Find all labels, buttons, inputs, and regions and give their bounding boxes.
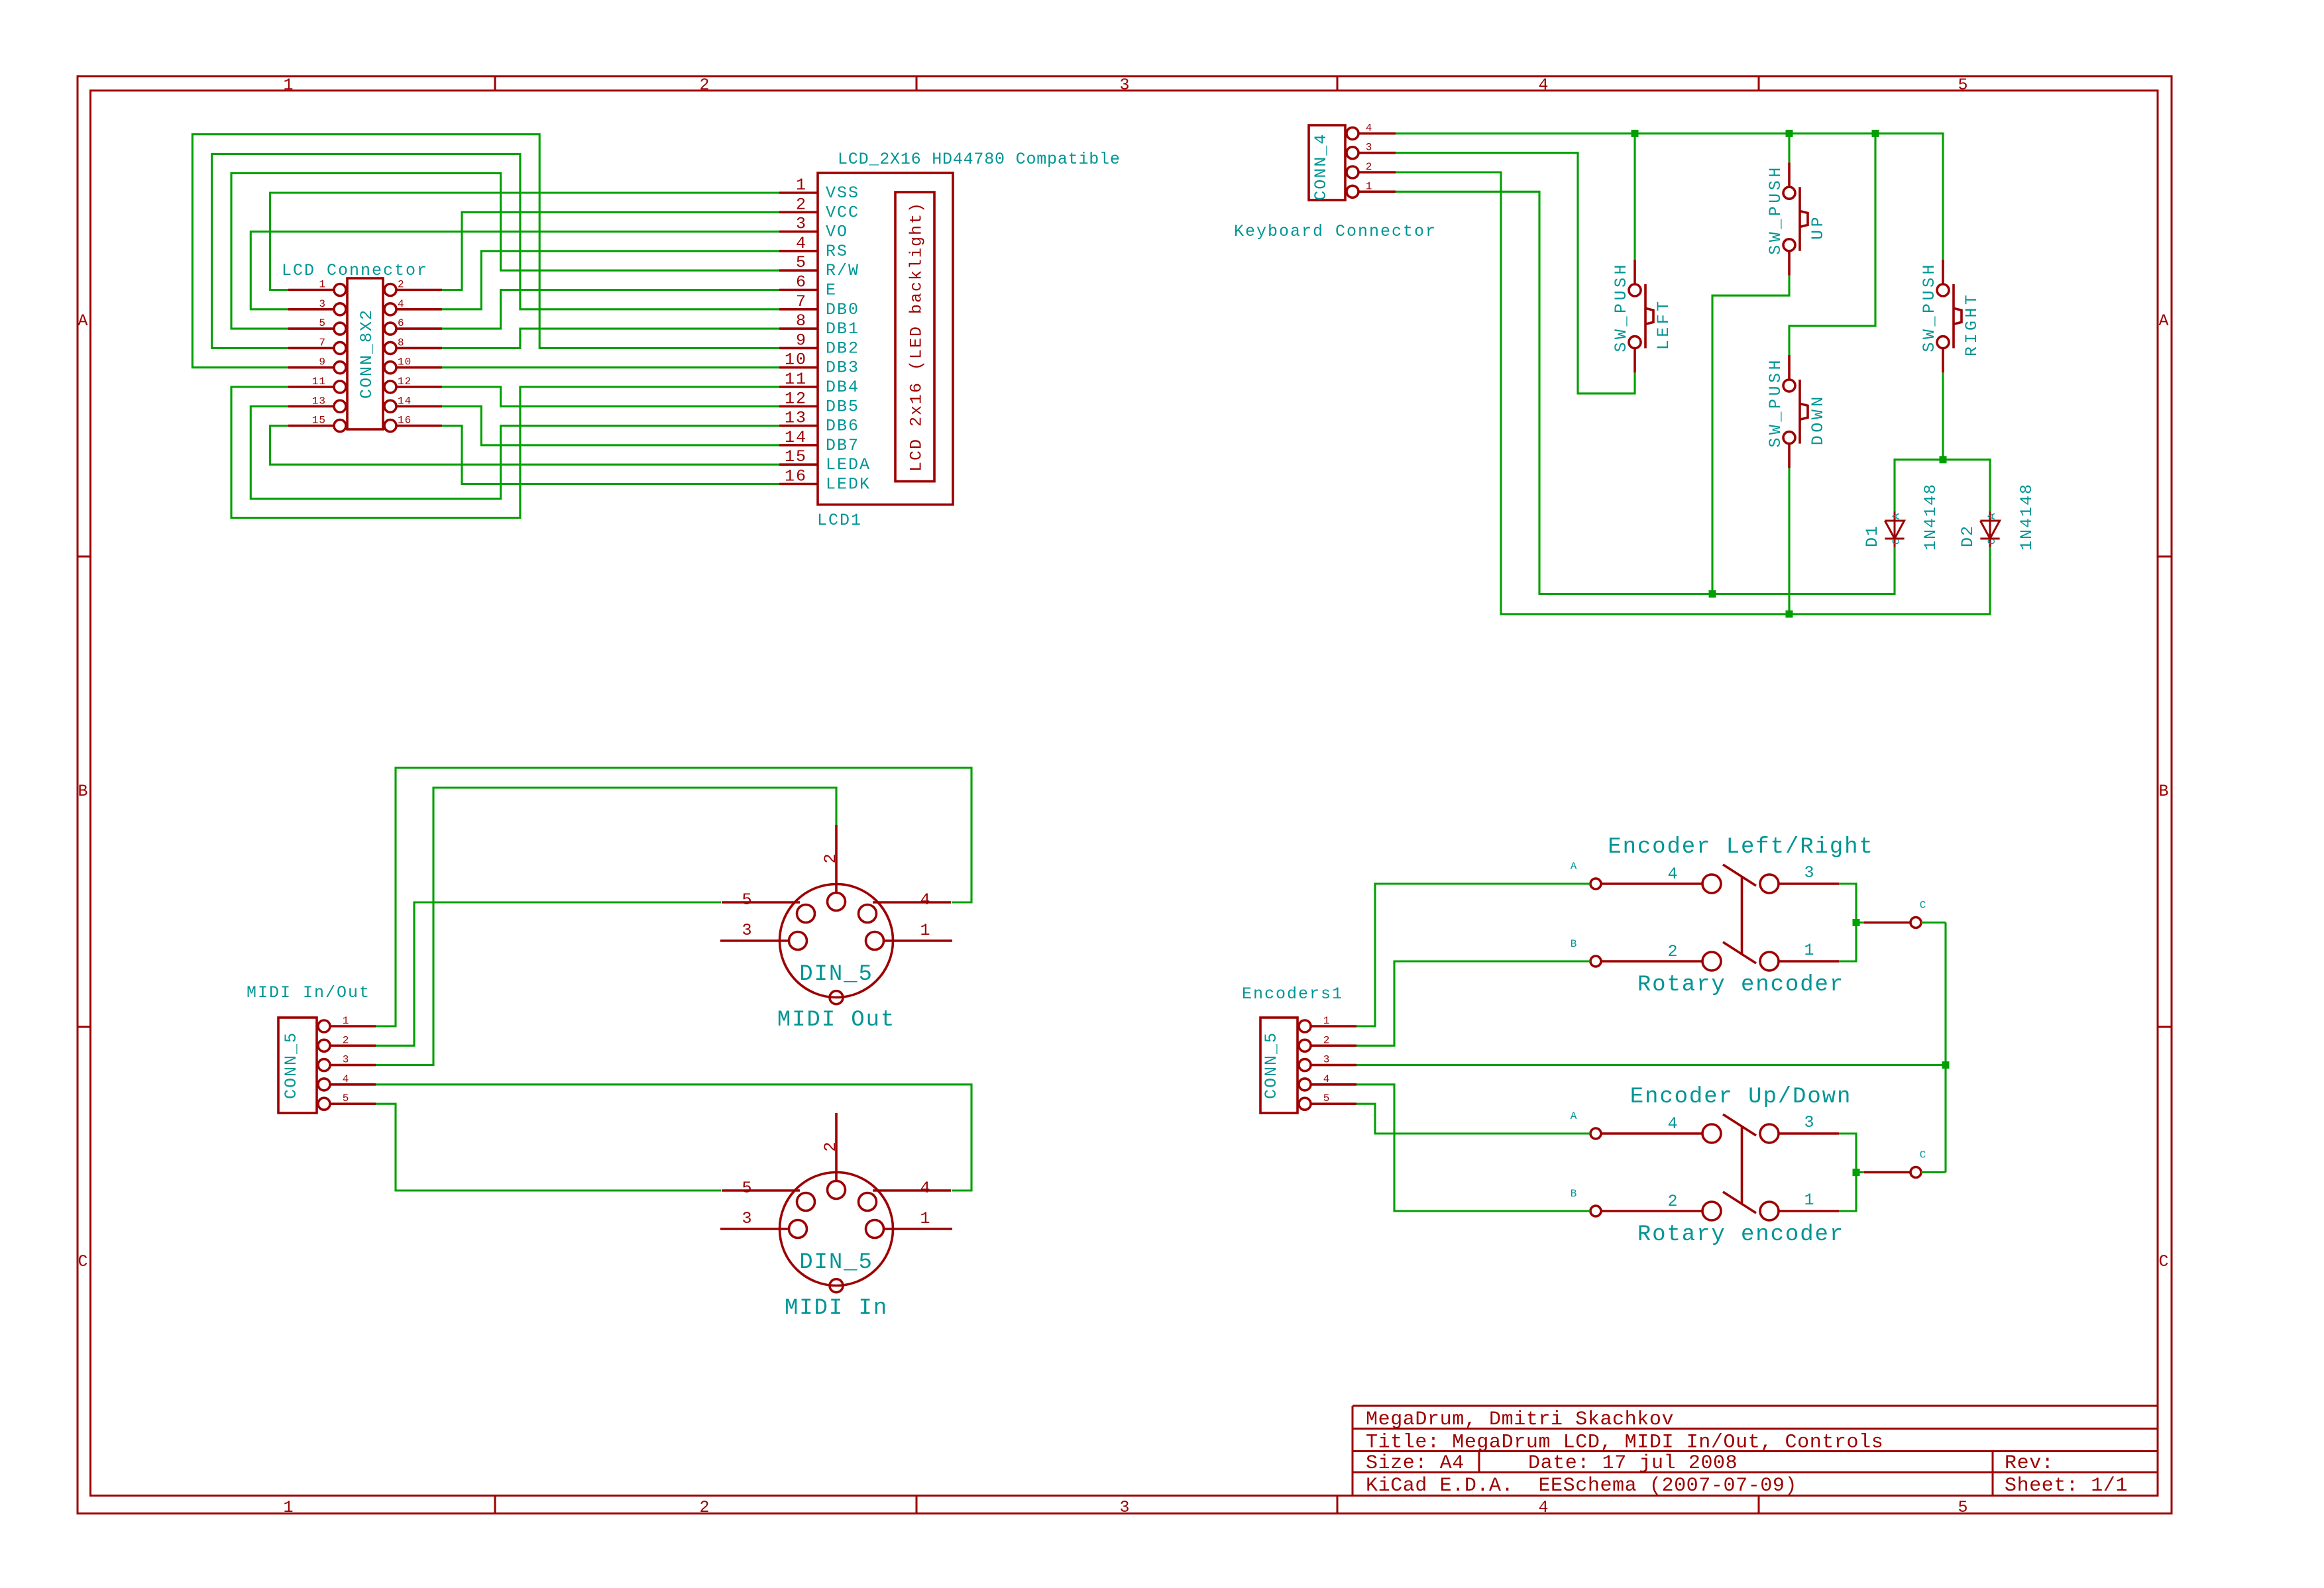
svg-text:11: 11 bbox=[785, 370, 807, 389]
svg-text:DOWN: DOWN bbox=[1808, 394, 1828, 445]
wire Encoders1.1 to Encoder L/R A bbox=[1356, 884, 1590, 1026]
svg-text:3: 3 bbox=[1323, 1054, 1331, 1066]
svg-text:DB4: DB4 bbox=[826, 378, 859, 397]
svg-text:12: 12 bbox=[785, 389, 807, 408]
svg-text:Rotary encoder: Rotary encoder bbox=[1637, 973, 1844, 998]
svg-text:MegaDrum, Dmitri Skachkov: MegaDrum, Dmitri Skachkov bbox=[1366, 1408, 1674, 1431]
svg-text:8: 8 bbox=[796, 311, 807, 331]
svg-text:Title: MegaDrum LCD, MIDI In/O: Title: MegaDrum LCD, MIDI In/Out, Contro… bbox=[1366, 1432, 1883, 1454]
svg-text:DB7: DB7 bbox=[826, 436, 859, 455]
svg-text:1: 1 bbox=[920, 1209, 931, 1228]
wire CONN_8X2.5 to LCD1.5 bbox=[231, 174, 779, 329]
svg-text:4: 4 bbox=[1538, 76, 1549, 95]
encoder (Encoder Up/Down) terminal labels A B C bbox=[1571, 1110, 1927, 1200]
junction UP bottom on net1 bbox=[1709, 590, 1716, 598]
DIN_5 connector (MIDI Out) bbox=[720, 825, 952, 1004]
svg-text:1: 1 bbox=[343, 1015, 350, 1027]
svg-text:DB5: DB5 bbox=[826, 397, 859, 416]
wire Encoders1.5 to Encoder U/D A bbox=[1356, 1104, 1590, 1134]
encoder (Encoder Left/Right) pin numbers bbox=[1667, 863, 1815, 961]
svg-text:C: C bbox=[1920, 1149, 1927, 1161]
svg-text:Rotary encoder: Rotary encoder bbox=[1637, 1222, 1844, 1247]
svg-text:3: 3 bbox=[1366, 142, 1373, 154]
svg-text:D2: D2 bbox=[1958, 525, 1977, 547]
svg-text:B: B bbox=[1571, 1188, 1578, 1200]
svg-text:3: 3 bbox=[343, 1054, 350, 1066]
junction at LEFT top branch bbox=[1632, 130, 1639, 137]
wire CONN_8X2.9 to LCD1.9 bbox=[192, 134, 779, 368]
svg-text:8: 8 bbox=[398, 337, 405, 348]
svg-text:SW_PUSH: SW_PUSH bbox=[1612, 262, 1631, 352]
svg-text:4: 4 bbox=[796, 234, 807, 253]
svg-text:C: C bbox=[1920, 900, 1927, 912]
svg-text:9: 9 bbox=[796, 331, 807, 350]
svg-text:CONN_4: CONN_4 bbox=[1311, 133, 1331, 201]
wire CONN_8X2.8 to LCD1.8 bbox=[442, 329, 779, 348]
svg-text:1: 1 bbox=[283, 1498, 294, 1517]
svg-text:A: A bbox=[1891, 513, 1903, 520]
svg-text:12: 12 bbox=[398, 376, 412, 388]
svg-text:B: B bbox=[1571, 938, 1578, 950]
svg-text:DB0: DB0 bbox=[826, 300, 859, 319]
svg-text:3: 3 bbox=[1804, 1113, 1815, 1132]
wire CONN_8X2.15 to LCD1.15 bbox=[270, 426, 779, 465]
svg-text:1N4148: 1N4148 bbox=[1921, 483, 1940, 551]
svg-text:1: 1 bbox=[1804, 941, 1815, 960]
wire CONN_8X2.4 to LCD1.4 bbox=[442, 251, 779, 309]
svg-text:MIDI In: MIDI In bbox=[785, 1296, 888, 1321]
svg-text:VO: VO bbox=[826, 223, 848, 242]
svg-text:13: 13 bbox=[312, 395, 326, 407]
svg-text:1: 1 bbox=[1804, 1191, 1815, 1210]
switch SW_PUSH RIGHT bbox=[1920, 260, 1981, 373]
svg-text:2: 2 bbox=[398, 279, 405, 291]
switch SW_PUSH UP bbox=[1766, 162, 1828, 276]
title block bbox=[1353, 1406, 2158, 1497]
DIN_5 connector (MIDI In) bbox=[720, 1113, 952, 1293]
svg-text:10: 10 bbox=[785, 350, 807, 370]
svg-text:Encoders1: Encoders1 bbox=[1242, 984, 1343, 1004]
svg-text:11: 11 bbox=[312, 376, 326, 388]
svg-text:4: 4 bbox=[1323, 1073, 1331, 1085]
junction RIGHT bottom on diode net bbox=[1940, 456, 1947, 463]
svg-text:16: 16 bbox=[398, 415, 412, 427]
wire encoder (Encoder Up/Down) C stub bbox=[1856, 1171, 1864, 1173]
svg-text:5: 5 bbox=[1323, 1092, 1331, 1104]
svg-text:15: 15 bbox=[312, 415, 326, 427]
diode D2 1N4148 bbox=[1980, 511, 1999, 548]
svg-text:5: 5 bbox=[796, 253, 807, 272]
wire branch to SW_PUSH UP top bbox=[1788, 133, 1790, 162]
svg-text:CONN_5: CONN_5 bbox=[1262, 1032, 1281, 1099]
wire D1 anode to D2 anode bbox=[1895, 460, 1990, 511]
junction encoder (Encoder Left/Right) C bbox=[1853, 919, 1860, 926]
svg-text:MIDI In/Out: MIDI In/Out bbox=[247, 983, 370, 1002]
svg-text:2: 2 bbox=[343, 1034, 350, 1046]
connector Keyboard Connector CONN_4 bbox=[1309, 125, 1396, 201]
svg-text:LCD_2X16 HD44780 Compatible: LCD_2X16 HD44780 Compatible bbox=[838, 150, 1121, 169]
svg-text:4: 4 bbox=[920, 1179, 931, 1198]
wire CONN_8X2.2 to LCD1.2 bbox=[442, 212, 779, 290]
svg-text:1: 1 bbox=[920, 921, 931, 940]
LCD1 pin names bbox=[826, 184, 871, 494]
rotary encoder (Encoder Up/Down) bbox=[1590, 1114, 1921, 1220]
svg-text:14: 14 bbox=[398, 395, 412, 407]
svg-text:5: 5 bbox=[1958, 76, 1969, 95]
svg-text:2: 2 bbox=[699, 76, 710, 95]
svg-text:DB6: DB6 bbox=[826, 417, 859, 436]
svg-text:3: 3 bbox=[796, 215, 807, 234]
connector Encoders1 CONN_5 bbox=[1260, 1018, 1356, 1113]
svg-text:Encoder Left/Right: Encoder Left/Right bbox=[1608, 835, 1873, 860]
wire CONN_4.2 to D2 cathode bbox=[1396, 172, 1990, 614]
svg-text:VCC: VCC bbox=[826, 203, 859, 222]
svg-text:C: C bbox=[1891, 538, 1903, 545]
svg-text:5: 5 bbox=[1958, 1498, 1969, 1517]
svg-text:2: 2 bbox=[1366, 161, 1373, 173]
junction common C net bbox=[1942, 1061, 1950, 1069]
svg-text:1: 1 bbox=[796, 176, 807, 195]
wire CONN_8X2.11 to LCD1.11 bbox=[231, 387, 779, 518]
encoder (Encoder Up/Down) pin numbers bbox=[1667, 1113, 1815, 1211]
wire CONN_5.5 to MIDI In DIN.5 bbox=[376, 1104, 721, 1191]
wire encoder (Encoder Up/Down) C to common bbox=[1921, 1171, 1946, 1173]
svg-text:4: 4 bbox=[920, 890, 931, 910]
svg-text:4: 4 bbox=[343, 1073, 350, 1085]
svg-text:15: 15 bbox=[785, 447, 807, 466]
rotary encoder (Encoder Left/Right) bbox=[1590, 865, 1921, 971]
svg-text:SW_PUSH: SW_PUSH bbox=[1920, 262, 1939, 352]
svg-text:LEDK: LEDK bbox=[826, 475, 871, 494]
svg-text:Encoder Up/Down: Encoder Up/Down bbox=[1630, 1085, 1852, 1110]
svg-text:3: 3 bbox=[319, 298, 326, 310]
wire CONN_8X2.1 to LCD1.1 bbox=[270, 193, 779, 290]
wire Encoders1.4 to Encoder U/D B bbox=[1356, 1085, 1590, 1211]
svg-text:2: 2 bbox=[796, 195, 807, 214]
wire CONN_8X2.13 to LCD1.13 bbox=[250, 406, 779, 499]
svg-text:DIN_5: DIN_5 bbox=[799, 1250, 873, 1275]
svg-text:7: 7 bbox=[796, 292, 807, 311]
diode D1 1N4148 bbox=[1885, 511, 1904, 548]
svg-text:CONN_8X2: CONN_8X2 bbox=[357, 309, 376, 399]
svg-text:Size: A4: Size: A4 bbox=[1366, 1452, 1465, 1475]
svg-text:LCD1: LCD1 bbox=[817, 511, 862, 530]
svg-text:VSS: VSS bbox=[826, 184, 859, 203]
svg-text:5: 5 bbox=[742, 1179, 753, 1198]
svg-text:10: 10 bbox=[398, 356, 412, 368]
svg-text:3: 3 bbox=[1119, 76, 1131, 95]
junction encoder (Encoder Up/Down) C bbox=[1853, 1169, 1860, 1176]
svg-text:A: A bbox=[78, 311, 89, 331]
junction at UP top branch bbox=[1786, 130, 1793, 137]
wire common vertical between encoder C pins bbox=[1944, 923, 1946, 1173]
svg-text:1: 1 bbox=[283, 76, 294, 95]
svg-text:1: 1 bbox=[1323, 1015, 1331, 1027]
wire CONN_5.1 to MIDI Out DIN.4 bbox=[376, 768, 971, 1026]
svg-text:5: 5 bbox=[742, 890, 753, 910]
svg-text:1N4148: 1N4148 bbox=[2017, 483, 2036, 551]
DIN_5 (MIDI In) pin numbers bbox=[742, 1140, 931, 1228]
wire CONN_8X2.14 to LCD1.14 bbox=[442, 406, 779, 445]
junction at DOWN top branch bbox=[1872, 130, 1879, 137]
connector MIDI In/Out CONN_5 bbox=[278, 1018, 376, 1113]
wire CONN_8X2.6 to LCD1.6 bbox=[442, 290, 779, 329]
svg-text:14: 14 bbox=[785, 428, 807, 447]
CONN_5 (Encoders1) pin numbers bbox=[1323, 1015, 1331, 1104]
svg-text:4: 4 bbox=[1667, 865, 1679, 884]
svg-text:SW_PUSH: SW_PUSH bbox=[1766, 357, 1785, 448]
svg-text:A: A bbox=[1571, 861, 1578, 873]
svg-text:Date: 17 jul 2008: Date: 17 jul 2008 bbox=[1528, 1452, 1738, 1475]
CONN_5 (MIDI) pin numbers bbox=[343, 1015, 350, 1104]
wire branch to SW_PUSH LEFT top bbox=[1633, 133, 1635, 260]
svg-text:2: 2 bbox=[1323, 1034, 1331, 1046]
LCD1 pin numbers bbox=[785, 176, 807, 486]
svg-text:DB1: DB1 bbox=[826, 319, 859, 339]
wire SW_PUSH UP bottom to node bbox=[1712, 276, 1789, 594]
svg-text:E: E bbox=[826, 281, 837, 300]
svg-text:5: 5 bbox=[319, 317, 326, 329]
wire SW_PUSH RIGHT bottom to diodes bbox=[1942, 373, 1944, 460]
svg-text:MIDI Out: MIDI Out bbox=[777, 1008, 895, 1033]
wire branch to SW_PUSH DOWN top bbox=[1789, 133, 1875, 355]
svg-text:LCD 2x16 (LED backlight): LCD 2x16 (LED backlight) bbox=[907, 201, 926, 472]
encoder (Encoder Left/Right) terminal labels A B C bbox=[1571, 861, 1927, 950]
wire CONN_4.4 rail to SW_PUSH RIGHT top bbox=[1396, 133, 1943, 260]
wire CONN_8X2.7 to LCD1.7 bbox=[212, 154, 779, 348]
wire Encoders1.2 to Encoder L/R B bbox=[1356, 961, 1590, 1045]
svg-text:13: 13 bbox=[785, 409, 807, 428]
wire CONN_8X2.10 to LCD1.10 bbox=[442, 366, 779, 368]
svg-text:6: 6 bbox=[796, 273, 807, 292]
svg-text:4: 4 bbox=[1366, 122, 1373, 134]
svg-text:A: A bbox=[1571, 1110, 1578, 1122]
svg-text:RIGHT: RIGHT bbox=[1962, 292, 1981, 357]
wire encoder (Encoder Left/Right) contacts to C bbox=[1839, 884, 1856, 961]
wire CONN_4.1 to D1 cathode bbox=[1396, 191, 1895, 594]
wire CONN_8X2.12 to LCD1.12 bbox=[442, 387, 779, 406]
svg-text:2: 2 bbox=[821, 852, 840, 863]
svg-text:DIN_5: DIN_5 bbox=[799, 962, 873, 987]
svg-text:5: 5 bbox=[343, 1092, 350, 1104]
svg-text:2: 2 bbox=[821, 1140, 840, 1151]
svg-text:4: 4 bbox=[1538, 1498, 1549, 1517]
svg-text:7: 7 bbox=[319, 337, 326, 348]
LCD module LCD1 bbox=[779, 173, 953, 505]
svg-text:LEFT: LEFT bbox=[1654, 298, 1673, 350]
svg-text:Rev:: Rev: bbox=[2005, 1452, 2054, 1475]
svg-text:Keyboard Connector: Keyboard Connector bbox=[1234, 222, 1437, 241]
switch SW_PUSH DOWN bbox=[1766, 355, 1828, 468]
svg-text:4: 4 bbox=[1667, 1114, 1679, 1134]
svg-text:CONN_5: CONN_5 bbox=[282, 1032, 301, 1099]
wire encoder (Encoder Left/Right) C to common bbox=[1921, 922, 1946, 924]
svg-text:R/W: R/W bbox=[826, 261, 859, 280]
wire Encoders1.3 common bbox=[1356, 1064, 1946, 1066]
DIN_5 (MIDI Out) pin numbers bbox=[742, 852, 931, 940]
svg-text:A: A bbox=[1986, 513, 1998, 520]
wire encoder (Encoder Up/Down) contacts to C bbox=[1839, 1134, 1856, 1211]
svg-text:9: 9 bbox=[319, 356, 326, 368]
svg-text:DB2: DB2 bbox=[826, 339, 859, 358]
CONN_4 pin numbers bbox=[1366, 122, 1373, 192]
CONN_8X2 pin numbers bbox=[312, 279, 412, 427]
svg-text:Sheet: 1/1: Sheet: 1/1 bbox=[2005, 1475, 2128, 1497]
svg-text:C: C bbox=[78, 1252, 89, 1271]
svg-text:C: C bbox=[2158, 1252, 2170, 1271]
svg-text:2: 2 bbox=[1667, 1192, 1679, 1211]
switch SW_PUSH LEFT bbox=[1612, 260, 1673, 373]
svg-text:16: 16 bbox=[785, 467, 807, 486]
wire SW_PUSH DOWN bottom to node bbox=[1788, 468, 1790, 614]
wire SW_PUSH LEFT bottom to CONN_4.3 bbox=[1396, 153, 1635, 394]
wire CONN_5.4 to MIDI In DIN.4 bbox=[376, 1085, 971, 1191]
svg-text:6: 6 bbox=[398, 317, 405, 329]
svg-text:2: 2 bbox=[1667, 942, 1679, 961]
connector LCD Connector CONN_8X2 bbox=[288, 278, 442, 432]
svg-text:B: B bbox=[78, 782, 89, 801]
svg-text:UP: UP bbox=[1808, 214, 1828, 240]
wire CONN_8X2.16 to LCD1.16 bbox=[442, 426, 779, 484]
svg-text:3: 3 bbox=[1119, 1498, 1131, 1517]
svg-text:2: 2 bbox=[699, 1498, 710, 1517]
svg-text:C: C bbox=[1986, 538, 1998, 545]
svg-text:A: A bbox=[2158, 311, 2170, 331]
svg-text:SW_PUSH: SW_PUSH bbox=[1766, 164, 1785, 255]
svg-text:DB3: DB3 bbox=[826, 358, 859, 378]
svg-text:RS: RS bbox=[826, 242, 848, 261]
wire CONN_5.2 to MIDI Out DIN.5 bbox=[376, 902, 721, 1045]
svg-text:LCD Connector: LCD Connector bbox=[282, 261, 428, 280]
svg-text:3: 3 bbox=[742, 921, 753, 940]
junction DOWN bottom on net2 bbox=[1786, 610, 1793, 617]
svg-text:4: 4 bbox=[398, 298, 405, 310]
svg-text:D1: D1 bbox=[1863, 525, 1882, 547]
svg-text:1: 1 bbox=[319, 279, 326, 291]
wire CONN_8X2.3 to LCD1.3 bbox=[250, 232, 779, 309]
svg-text:3: 3 bbox=[1804, 863, 1815, 882]
svg-text:KiCad E.D.A. EESchema (2007-0: KiCad E.D.A. EESchema (2007-07-09) bbox=[1366, 1475, 1797, 1497]
wire encoder (Encoder Left/Right) C stub bbox=[1856, 922, 1864, 924]
svg-text:1: 1 bbox=[1366, 180, 1373, 192]
wire CONN_5.3 to MIDI Out DIN.2 bbox=[376, 788, 836, 1065]
svg-text:3: 3 bbox=[742, 1209, 753, 1228]
svg-text:B: B bbox=[2158, 782, 2170, 801]
svg-text:LEDA: LEDA bbox=[826, 455, 871, 474]
